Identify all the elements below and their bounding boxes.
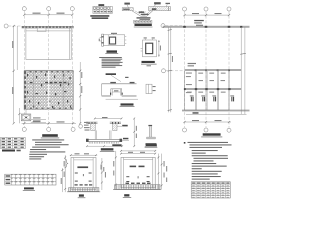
pier leader line 1 (31, 118, 46, 120)
notes paragraph line 5 (102, 63, 120, 66)
foundation beam dark band right (45, 82, 69, 84)
rp cell labels row 1 (198, 73, 225, 74)
left dim rotated value 1 (12, 41, 13, 48)
rp pier label 1 (190, 95, 194, 96)
s11 right rotated value 2 (103, 167, 104, 172)
dimension value 4200 right bay (57, 13, 65, 14)
rp right boundary line 2 (244, 27, 246, 114)
rp wall junction mark 1 (183, 26, 186, 28)
br table column lines (196, 182, 225, 198)
s22 rebar dash c (126, 181, 129, 182)
bl schedule row line 2 (5, 180, 56, 182)
rp middle wall junction 2 (205, 69, 207, 71)
twin right dim tick mid (133, 131, 135, 133)
axis bubble bottom 3 (71, 127, 75, 131)
foundation mid horizontal line (24, 95, 73, 97)
rp dim tick 3 (228, 14, 230, 16)
section 2-2 upper label left (112, 144, 121, 146)
twin footing title underline (100, 150, 115, 152)
rebar symbol circle 3 (100, 7, 102, 9)
rp pier mark 4 (231, 97, 234, 102)
rp room divider 2 (205, 71, 207, 110)
tie beam title (107, 50, 118, 52)
U footing right wall inner (109, 130, 111, 139)
row leader dashed lower (166, 70, 184, 72)
foundation mat top line (24, 69, 73, 71)
left column leader text 2 (84, 125, 89, 126)
bottom dim value 1 (33, 121, 41, 122)
s11 top dim tick R (95, 154, 97, 156)
pier tick label 1 (153, 86, 156, 87)
title foundation plan (42, 134, 58, 137)
s22 left rotated value 1 (113, 161, 114, 167)
s22 wall inner left (123, 157, 125, 187)
rebar table cell values (94, 11, 112, 13)
s22 left rotated value 2 (113, 171, 114, 176)
rp pier mark 2 (202, 97, 205, 102)
right dim extra tick b (79, 95, 81, 97)
s22 dim value 2 (140, 152, 145, 153)
title underline (41, 137, 59, 139)
s11 rebar dash a (75, 173, 78, 174)
twin top dim value (102, 117, 108, 118)
angle detail title (146, 143, 157, 145)
s22 rebar dash d (147, 181, 150, 182)
axis bubble top 1 (22, 7, 26, 11)
rp internal wall junction marks (184, 88, 231, 90)
s11 right dim ticks (101, 162, 103, 184)
long section dim line 2 (170, 28, 172, 113)
left dim tick b (13, 70, 15, 72)
column section title underline (141, 63, 157, 65)
right dim extra tick a (79, 83, 81, 85)
bottom dim tick 2 (48, 122, 50, 124)
s22 right dim line 2 (161, 154, 163, 190)
beam detail title underline (134, 26, 153, 28)
axis grid line 1 (vertical dashed) (23, 11, 25, 127)
row bubble lower for right plan (162, 69, 166, 73)
haunch inner line (135, 10, 151, 15)
twin top dim line (95, 118, 122, 120)
bottom dim tick 3 (72, 122, 74, 124)
rp bottom dim tick 3 (228, 121, 230, 123)
U footing left wall inner (96, 130, 98, 139)
right dim rotated value 2 (81, 72, 82, 78)
rp bottom dim tick 2 (205, 121, 207, 123)
bottom dim value 2 (57, 121, 65, 122)
right tick 1 (125, 36, 127, 38)
br note line 7 (192, 166, 227, 167)
rp dim tick 2 (205, 14, 207, 16)
rp cell labels row 2 (187, 92, 226, 93)
s11 wall inner line right (92, 158, 94, 190)
s22 interior label 1 (130, 166, 137, 168)
secondary left dim line (18, 108, 20, 123)
s22 right rotated value 1 (164, 161, 165, 167)
footing pit inner line 2 (119, 89, 121, 96)
U footing end cap left (86, 139, 89, 142)
dimension tick 1 (23, 14, 25, 16)
notes bullet (184, 142, 186, 144)
rp annotation line 2 (194, 22, 202, 23)
row leader dashed upper (165, 25, 183, 27)
rebar symbol circle 5 (107, 7, 109, 9)
inner wall line right (68, 28, 70, 60)
br note line 4 (194, 158, 229, 159)
room plan outline (26, 28, 71, 60)
pier leader line 2 (31, 121, 46, 123)
br note line 10 (192, 173, 218, 174)
foundation bottom edge dark dashes (24, 107, 73, 109)
twin right dim tick bottom (133, 145, 135, 147)
right bar inner label (152, 8, 157, 10)
beam detail title (135, 24, 152, 26)
wall top edge line (22, 25, 74, 27)
angle detail foot end tick left (146, 137, 148, 139)
rp wall junction mark 3 (228, 26, 231, 28)
rp middle wall junction 1 (195, 69, 197, 71)
s11 wall inner line left (73, 158, 75, 190)
notes paragraph line 2 (102, 58, 123, 61)
rp pier label 2 (201, 95, 205, 96)
haunch hatch strokes (139, 11, 150, 15)
axis grid line 2 (vertical dashed) (48, 11, 50, 127)
long dim tick 1 (168, 29, 172, 30)
s22 upper dim line (121, 150, 155, 152)
left mini table title mark 2 (17, 150, 21, 152)
bl schedule table frame (5, 174, 56, 185)
angle detail foot bottom line (147, 138, 156, 140)
rp wall junction mark 4 (240, 26, 242, 28)
rebar table header text (98, 4, 104, 6)
twin top dim tick R (121, 118, 123, 120)
axis bubble bottom 1 (22, 127, 26, 131)
rp note line 2 (190, 144, 232, 145)
rp room divider 1 (195, 71, 197, 110)
U footing slab top line (87, 138, 122, 140)
foundation internal grid line v3 (63, 71, 65, 110)
pier detail box (21, 114, 31, 121)
column section outer square (143, 40, 157, 57)
footing center dim (112, 91, 120, 93)
rp middle wall line 1 (185, 69, 242, 71)
rp room label 7 (221, 80, 226, 81)
right plan top bubble 2 (204, 7, 208, 11)
left column cap line 2 (86, 123, 97, 125)
rebar table frame (93, 6, 112, 13)
long dim tick 3 (168, 70, 172, 71)
foundation mat hatched area (24, 71, 73, 110)
twin right dim line (133, 119, 135, 147)
s22 rebar row above footing (126, 183, 151, 184)
bl note line 9 (29, 158, 41, 159)
rp room divider 3 (217, 71, 219, 110)
twin top dim tick L (94, 118, 96, 120)
long dim rotated label (172, 56, 173, 62)
left column cap line 1 (86, 121, 97, 123)
section 2-2 outer box (121, 157, 155, 187)
s22 wall inner right (152, 157, 154, 187)
notes paragraph line 3 (102, 59, 121, 62)
twin bottom dim tick 2 (103, 145, 105, 147)
top dimension line (24, 14, 72, 16)
s11 top dim value 2 (84, 153, 89, 154)
s22 center tick (138, 176, 139, 178)
long dim tick 4 (168, 110, 172, 111)
rp room label 4 (186, 92, 191, 93)
rp bottom dim value 2 (215, 120, 222, 121)
footing pit inner line 1 (111, 89, 113, 96)
section 2-2 title (124, 194, 129, 196)
beam detail left arrow label (124, 3, 129, 5)
rebar symbol circle 4 (104, 7, 106, 9)
footing profile second line left (102, 95, 111, 97)
footing profile second line right (122, 95, 137, 97)
s22 top inner line (124, 159, 153, 161)
bl schedule title underline (23, 189, 35, 191)
section 2-2 title underline (123, 197, 131, 199)
secondary upper-left dim line (16, 26, 18, 70)
right vertical dimension line of mat (79, 62, 81, 123)
column dim label right (152, 37, 155, 38)
rp bottom wall line 1 (182, 109, 250, 111)
rebar table column dividers (96, 6, 110, 13)
footing section title underline (120, 105, 135, 107)
br note line 2 (192, 153, 206, 154)
s11 rebar dash b (89, 173, 92, 174)
schedule strip frame (134, 20, 152, 23)
right plan axis 2 dashed (205, 11, 207, 128)
s11 left dim line 2 (61, 168, 63, 192)
left bar inner dark dash (123, 9, 130, 10)
tie beam title underline (105, 53, 118, 55)
bl note line 1 (32, 139, 64, 140)
br table header marks (192, 183, 229, 184)
wall hatched band (22, 26, 74, 28)
bl schedule row line 1 (5, 177, 56, 179)
footing dark tick left (110, 93, 111, 95)
axis bubble top 2 (47, 7, 51, 11)
foundation internal grid line v2 (48, 71, 50, 110)
bl schedule title (24, 187, 34, 189)
rp internal wall line 2 (185, 89, 242, 91)
right dim tick a (79, 70, 81, 72)
br note line 9 (192, 171, 222, 172)
s22 right dim line 1 (157, 154, 159, 190)
column section inner reinforced square (146, 43, 153, 53)
s22 left dim line (115, 151, 117, 190)
rp wall junction mark 2 (205, 26, 208, 28)
rp right boundary tick (240, 53, 246, 54)
s22 right rotated value 4 (166, 178, 167, 183)
column section title (142, 61, 155, 63)
bottom dimension line (22, 122, 76, 124)
rp bottom dim line (185, 121, 232, 123)
s22 interior label 2 (139, 166, 145, 168)
left column leader text 4 (85, 130, 90, 131)
pier stub line (25, 110, 27, 115)
leader diagonal (111, 75, 121, 81)
rp room label 6 (210, 80, 215, 81)
left column leader text 1 (84, 122, 88, 123)
bl note line 6 (30, 151, 66, 152)
footing section label a (110, 82, 116, 83)
column right dim arrowhead bottom (158, 55, 160, 57)
schedule strip dividers (137, 20, 149, 23)
footing end pier rect (146, 84, 152, 93)
U footing end cap right (120, 139, 123, 142)
long dim tick 2 (168, 53, 172, 54)
foundation column blobs (27, 74, 71, 109)
footing end pier inner line (148, 84, 150, 93)
s22 dim ticks (120, 150, 156, 155)
s22 footing hatched strip (115, 185, 160, 190)
column right dim label (160, 46, 161, 51)
notes paragraph line 4 (102, 61, 123, 64)
angle detail foot end tick right (154, 137, 156, 139)
column dim label left (144, 37, 147, 38)
s11 interior label (77, 166, 88, 168)
U footing right wall outer (110, 130, 112, 139)
rp rooms outline (185, 71, 229, 110)
rp note line 3 (190, 147, 223, 148)
s11 left dim ticks (62, 157, 67, 190)
s11 top dim value 1 (75, 153, 80, 154)
rp pier label 4 (230, 95, 234, 96)
dimension value 4200 left bay (33, 13, 41, 14)
s11 left dim line 1 (64, 155, 66, 192)
left dim rotated value 2 (12, 87, 13, 94)
foundation internal grid line v1 (33, 71, 35, 110)
pier diagonal 2 (22, 115, 30, 120)
twin bottom dim tick 3 (121, 145, 123, 147)
br note line 3 (192, 155, 228, 156)
rp dim value 2 (215, 13, 222, 14)
beam detail right arrow line (166, 4, 167, 7)
pier tick label 2 (153, 90, 156, 91)
twin bottom dim tick 1 (86, 145, 88, 147)
haunch label 2 (141, 14, 149, 15)
tie beam detail outline (103, 35, 124, 46)
bl schedule data marks (11, 174, 56, 185)
beam detail top leader label (154, 2, 161, 4)
rp title underline (201, 136, 222, 138)
bl note line 5 (30, 149, 46, 150)
s11 ground line (67, 191, 100, 193)
br table data marks (191, 184, 230, 198)
footing section label b (130, 82, 135, 83)
U footing hatch under slab (89, 142, 120, 144)
rp pier label 3 (212, 95, 216, 96)
twin right dim rotated value 2 (136, 134, 137, 139)
s22 left dim ticks (115, 157, 117, 186)
footing section title (121, 103, 134, 105)
dimension tick 2 (48, 14, 50, 16)
bl brace symbol (64, 159, 68, 168)
twin right dim tick top (133, 118, 135, 120)
rp annotation line 1 (194, 20, 204, 21)
right plan axis 1 dashed (184, 11, 186, 128)
bl note line 4 (32, 147, 60, 148)
br table row lines (191, 184, 230, 196)
pier leader text 2 (33, 120, 41, 121)
left dim tick c (13, 122, 15, 124)
left mini table column lines (6, 137, 19, 148)
rp right boundary line 1 (240, 27, 242, 114)
right column cap line 1 (110, 121, 121, 123)
s22 top dim line (121, 153, 155, 155)
s11 footing hatched strip (69, 188, 99, 192)
right dim tick b (79, 108, 81, 110)
right tick 2 (125, 39, 127, 41)
bl note line 8 (29, 156, 44, 157)
s11 right rotated value 1 (101, 165, 102, 170)
rp title (203, 133, 221, 135)
br note line 1 (192, 150, 218, 151)
rp pier mark 3 (213, 97, 216, 102)
top dim label (111, 33, 117, 34)
rp middle wall junction 3 (217, 69, 219, 71)
s11 left rotated value 3 (61, 178, 62, 184)
s11 right dim line (101, 158, 103, 190)
schedule strip values (134, 21, 151, 22)
left column body (91, 124, 96, 131)
rp bottom bubble 1 (183, 128, 187, 132)
twin bottom dim line (87, 145, 122, 147)
bottom dim tick 1 (23, 122, 25, 124)
s22 rebar dash b (147, 176, 150, 177)
right column cap rebar ticks (112, 122, 119, 124)
left tick label (99, 39, 100, 42)
rp bottom annotation (193, 112, 199, 114)
dimension tick 3 (71, 14, 73, 16)
door notch in wall (37, 28, 46, 32)
bl note line 2 (35, 142, 62, 143)
footing section top line (102, 83, 137, 85)
s11 right rotated value 3 (105, 172, 106, 178)
rp room label 2 (186, 76, 191, 77)
flange anchor mark bottom (101, 42, 103, 43)
tie beam dotted zone (116, 35, 124, 45)
inner face line of top wall (26, 30, 71, 32)
notes paragraph line 1 (99, 56, 122, 59)
rp left annotation 2 (188, 65, 194, 66)
twin footing title label (101, 148, 114, 150)
U footing slab bottom line (87, 141, 122, 143)
foundation top edge dark dashes (24, 71, 73, 73)
rebar table caption line 2 (92, 17, 109, 19)
rebar symbol circle 1 (93, 7, 95, 9)
left mini table cell marks (2, 138, 24, 148)
row axis bubble A (4, 24, 8, 28)
section 1-1 top dim line (70, 154, 97, 156)
pier center mark (25, 117, 27, 119)
beam detail right arrow label (166, 3, 171, 4)
column right dim arrowhead top (158, 40, 160, 42)
section 2-2 title top underline (145, 146, 158, 148)
s11 rebar row above footing (75, 184, 93, 185)
tie beam inner column square (110, 37, 116, 44)
beam detail top leader line (154, 4, 157, 6)
left mini table frame (1, 137, 26, 148)
footing stepped profile (102, 84, 137, 96)
small label right (125, 77, 128, 78)
haunch label 1 (139, 11, 145, 13)
s11 rebar dash c (75, 181, 78, 182)
U footing left wall outer (94, 130, 96, 139)
left mini table row lines (1, 140, 26, 146)
rebar symbol circle 2 (97, 7, 99, 9)
